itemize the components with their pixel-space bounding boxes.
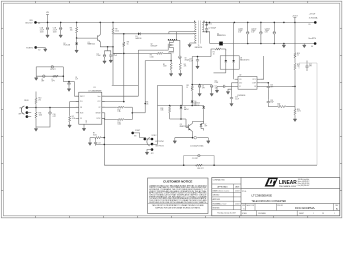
svg-text:LTC3805EMSE: LTC3805EMSE bbox=[89, 91, 103, 93]
svg-text:C4 OPT: C4 OPT bbox=[50, 69, 56, 71]
svg-text:FB: FB bbox=[254, 86, 256, 88]
wire D8 connections bbox=[214, 22, 234, 79]
svg-text:C5: C5 bbox=[41, 79, 43, 81]
transistor Q2 Si7850DP bbox=[151, 40, 174, 50]
capacitor C18 33pF bbox=[267, 90, 274, 107]
resistor R1 1.3M bbox=[163, 53, 172, 72]
sheet border outer frame bbox=[1, 1, 342, 218]
svg-text:ITH: ITH bbox=[80, 101, 82, 103]
wire to U1 INPUT pin bbox=[63, 82, 79, 97]
svg-text:5k: 5k bbox=[127, 44, 129, 46]
resistor R19 10k bbox=[294, 63, 300, 107]
wire bias bus bbox=[113, 53, 156, 55]
drawing number row bbox=[241, 204, 340, 211]
svg-text:U2: U2 bbox=[239, 75, 241, 77]
svg-text:OPT: OPT bbox=[52, 81, 55, 83]
junction dots on VIN rail bbox=[47, 22, 114, 24]
optional sync box C11 R18 bbox=[183, 154, 215, 169]
ground below D2 bbox=[75, 49, 78, 53]
svg-text:2.2uF: 2.2uF bbox=[40, 29, 44, 31]
capacitor C13 OPT bbox=[267, 83, 274, 90]
svg-text:FS: FS bbox=[80, 118, 82, 120]
svg-text:24.9k: 24.9k bbox=[72, 118, 76, 120]
svg-text:E8: E8 bbox=[134, 136, 136, 138]
Y-capacitor C14 2200pF 250VAC bbox=[175, 136, 209, 147]
svg-text:E5: E5 bbox=[309, 24, 311, 26]
ground U2 GND bbox=[226, 83, 234, 94]
svg-text:R16: R16 bbox=[297, 53, 300, 55]
ground below C1A bbox=[46, 34, 49, 38]
ground at SecRTN bbox=[303, 44, 306, 48]
svg-text:1/25/07: 1/25/07 bbox=[235, 203, 240, 205]
wire R6 to Q1 base bbox=[77, 37, 98, 39]
svg-text:D4: D4 bbox=[184, 107, 186, 109]
resistor R3 sense 0.040 ohm bbox=[150, 52, 171, 58]
wire output rail VOUT bbox=[209, 22, 316, 24]
svg-text:E2: E2 bbox=[38, 50, 40, 52]
transformer T1 bias winding bbox=[195, 33, 196, 43]
diode D6 BAS516 bbox=[194, 103, 205, 123]
wire SENSE to current sense bbox=[132, 112, 145, 114]
capacitor C19 2.2uF bbox=[230, 89, 239, 106]
junction dot emitter node bbox=[107, 46, 114, 48]
svg-text:2.2uF: 2.2uF bbox=[97, 55, 101, 57]
resistor R21 51 bbox=[186, 85, 193, 106]
svg-text:C15: C15 bbox=[189, 59, 192, 61]
svg-text:R14: R14 bbox=[118, 122, 121, 124]
svg-text:Q2: Q2 bbox=[151, 44, 153, 46]
capacitor COUT1 150uF bbox=[238, 22, 249, 43]
svg-text:DWG NO: DWG NO bbox=[277, 205, 283, 207]
ground below U1 bbox=[82, 127, 85, 131]
labels EXT SYNC / INT PROG bbox=[151, 141, 165, 155]
resistor R20 10.7k bbox=[294, 107, 301, 118]
transformer T1 core bbox=[198, 21, 200, 44]
svg-text:+VOUT: +VOUT bbox=[309, 14, 317, 16]
wire filter left leg bbox=[35, 67, 37, 76]
svg-text:Si7850DP: Si7850DP bbox=[151, 45, 158, 47]
svg-text:LT4430ES6: LT4430ES6 bbox=[237, 95, 245, 97]
capacitor COUT2 150uF bbox=[251, 22, 262, 43]
inductor L1 OPT bbox=[52, 75, 59, 82]
svg-text:E6: E6 bbox=[311, 46, 313, 48]
capacitor C1A 2.2uF 100V bbox=[40, 22, 49, 33]
wire U2 COMP bbox=[260, 82, 269, 84]
transformer T1 secondary winding bbox=[202, 22, 203, 31]
svg-text:10: 10 bbox=[213, 53, 215, 55]
op-amp U2 LT4430 box bbox=[238, 75, 257, 90]
svg-text:6.3V: 6.3V bbox=[251, 32, 254, 34]
svg-text:C9: C9 bbox=[75, 77, 77, 79]
wire Q3 collector net bbox=[193, 121, 204, 130]
svg-text:OFF: OFF bbox=[18, 114, 21, 116]
svg-text:0.1uF: 0.1uF bbox=[215, 82, 219, 84]
svg-text:OF: OF bbox=[322, 213, 324, 215]
zener D2 PDZ5.6B bbox=[64, 38, 79, 49]
svg-text:R7: R7 bbox=[93, 133, 95, 135]
capacitor C10 OPT bbox=[36, 108, 56, 128]
svg-text:47k: 47k bbox=[184, 66, 187, 68]
svg-text:INPUT: INPUT bbox=[80, 96, 85, 98]
gray board outline bbox=[299, 63, 317, 165]
ground below ITH network bbox=[68, 124, 71, 128]
svg-text:1.3k: 1.3k bbox=[118, 111, 121, 113]
svg-text:3.3k: 3.3k bbox=[146, 103, 149, 105]
wire primary return rail bbox=[104, 164, 317, 166]
border zone tick marks bbox=[1, 1, 342, 218]
svg-text:Phone: (408) 432-1900: Phone: (408) 432-1900 bbox=[298, 183, 310, 185]
svg-text:SHEET: SHEET bbox=[299, 213, 304, 215]
terminal E7 EXT SYNC bbox=[144, 138, 153, 141]
svg-text:1k: 1k bbox=[297, 55, 299, 57]
svg-text:C19: C19 bbox=[235, 97, 238, 99]
diode D1 BAS516 bbox=[113, 32, 169, 40]
svg-text:OPT: OPT bbox=[205, 125, 208, 127]
wire secondary bottom bbox=[202, 31, 209, 44]
svg-text:FB: FB bbox=[80, 107, 82, 109]
wire aux caps branch bbox=[191, 84, 211, 86]
svg-text:OPT: OPT bbox=[202, 87, 205, 89]
svg-text:INT PROG: INT PROG bbox=[156, 145, 165, 147]
terminal E5 +VOUT bbox=[309, 14, 318, 27]
svg-text:SENSE: SENSE bbox=[96, 112, 101, 114]
svg-text:T1: T1 bbox=[198, 45, 200, 47]
svg-text:1/25/07: 1/25/07 bbox=[235, 190, 240, 192]
svg-text:C1B: C1B bbox=[53, 28, 56, 30]
svg-text:R15: R15 bbox=[146, 102, 149, 104]
mosfet drain pin comb bbox=[168, 32, 180, 41]
transformer T1 primary winding bbox=[195, 22, 196, 31]
junction RUN node bbox=[35, 107, 37, 109]
svg-text:33pF: 33pF bbox=[270, 102, 274, 104]
svg-text:CUSTOMER NOTICE: CUSTOMER NOTICE bbox=[163, 180, 192, 184]
svg-text:100k: 100k bbox=[118, 124, 122, 126]
jumper JP2 EXT/INT bbox=[147, 137, 153, 150]
jumper JP1 ON/OFF bbox=[18, 106, 28, 118]
resistor RC ITH compensation bbox=[69, 102, 79, 124]
svg-text:R20: R20 bbox=[297, 109, 300, 111]
svg-text:R19: R19 bbox=[297, 64, 300, 66]
resistor R14 100k bbox=[105, 113, 133, 126]
svg-text:SIZE: SIZE bbox=[242, 205, 245, 207]
mosfet source pins bbox=[169, 48, 174, 54]
transistor Q3 MMBT2907A bbox=[180, 123, 193, 131]
title text LTC3805EMSE bbox=[242, 191, 286, 203]
capacitor C1B 2.2uF 100V bbox=[53, 22, 62, 33]
svg-text:R13: R13 bbox=[161, 108, 164, 110]
ground below C5 bbox=[109, 59, 112, 63]
svg-text:LTC3805EMSE: LTC3805EMSE bbox=[252, 194, 273, 198]
svg-text:1uF: 1uF bbox=[75, 79, 78, 81]
svg-text:R10: R10 bbox=[38, 98, 41, 100]
svg-text:R4 1: R4 1 bbox=[209, 24, 212, 26]
svg-text:R17: R17 bbox=[278, 103, 281, 105]
wire filter bottom branch bbox=[36, 75, 63, 77]
svg-text:27k: 27k bbox=[38, 99, 41, 101]
wire JP2 INT PROG bbox=[152, 143, 158, 145]
ground C14 left bbox=[173, 138, 176, 144]
resistor R12 1.3k bbox=[102, 106, 133, 113]
svg-text:Q1: Q1 bbox=[88, 42, 90, 44]
label PwRTN bbox=[26, 47, 33, 49]
wire aux top bbox=[192, 48, 226, 57]
capacitor C17 OPT bbox=[305, 61, 312, 72]
resistor R10 27k bbox=[35, 92, 42, 108]
svg-text:Q3: Q3 bbox=[180, 124, 182, 126]
svg-text:36V-72V: 36V-72V bbox=[25, 23, 33, 25]
capacitor C8 4700pF bbox=[179, 40, 190, 61]
wire mesh crossing bbox=[112, 84, 139, 86]
svg-text:RUN: RUN bbox=[80, 112, 83, 114]
resistor R11 100k bbox=[35, 108, 42, 128]
svg-text:PwRTN: PwRTN bbox=[26, 47, 33, 49]
U1 GND pin wire bbox=[83, 124, 85, 127]
wire VCC to bias winding bbox=[169, 32, 196, 34]
svg-text:R1: R1 bbox=[163, 64, 165, 66]
wire Q1 emitter down bbox=[100, 42, 113, 47]
svg-text:R18 OPT: R18 OPT bbox=[197, 168, 203, 170]
capacitor C5 0.1uF bbox=[109, 53, 117, 59]
svg-text:C11 OPT: C11 OPT bbox=[192, 158, 198, 160]
resistor R9 221k bbox=[112, 27, 119, 35]
wire Q3 emitter net bbox=[192, 132, 194, 138]
svg-text:OPT: OPT bbox=[41, 81, 44, 83]
svg-text:GND: GND bbox=[239, 82, 242, 84]
wire to VCC caps bbox=[105, 47, 111, 53]
svg-text:1: 1 bbox=[334, 213, 335, 215]
svg-text:L1: L1 bbox=[52, 79, 54, 81]
svg-text:U1: U1 bbox=[93, 87, 95, 89]
capacitor C15 4.7uF bbox=[189, 57, 199, 69]
wire output return rail bbox=[240, 43, 315, 45]
capacitor COUT3 150uF bbox=[265, 22, 276, 45]
svg-text:MMBT440: MMBT440 bbox=[88, 44, 95, 46]
diode D6 BAV19W bbox=[191, 100, 200, 105]
wire Q1 collector to rail bbox=[99, 22, 101, 34]
ground below divider bbox=[293, 117, 296, 121]
capacitor C6 OPT bbox=[198, 85, 205, 97]
net flag +VOUT bbox=[292, 15, 298, 22]
node VIN input rail wire bbox=[36, 21, 196, 23]
svg-text:MBRB2515L: MBRB2515L bbox=[217, 35, 226, 37]
ground below R1 bbox=[169, 72, 172, 76]
svg-text:TELECOM DC/DC CONVERTER: TELECOM DC/DC CONVERTER bbox=[252, 199, 287, 203]
svg-text:PDZ5.6B: PDZ5.6B bbox=[64, 45, 70, 47]
svg-text:0.040: 0.040 bbox=[150, 56, 154, 58]
wire secondary program line bbox=[158, 85, 204, 144]
svg-text:R11: R11 bbox=[39, 113, 42, 115]
terminal E8 FSET bbox=[131, 130, 146, 137]
resistor R13 3.3k bbox=[161, 106, 171, 120]
resistor R2 47k bbox=[179, 59, 186, 73]
wire sec aux vertical bbox=[191, 57, 193, 86]
svg-text:OPT: OPT bbox=[309, 66, 312, 68]
label below U2 bbox=[237, 95, 245, 97]
wire x113 vertical bbox=[112, 22, 114, 85]
diode D8 BAT54CWTG dual bbox=[220, 56, 250, 69]
svg-text:6.3V: 6.3V bbox=[265, 32, 268, 34]
logo Linear Technology bbox=[265, 178, 310, 188]
wire Q3 base net bbox=[170, 118, 189, 127]
capacitor C12 bbox=[94, 138, 101, 146]
label SYNC bbox=[152, 135, 158, 137]
capacitor C9 1uF bbox=[68, 77, 78, 87]
net flag VIN up bbox=[46, 12, 50, 22]
svg-text:10.7k: 10.7k bbox=[297, 111, 301, 113]
label T1 PA0367NL bbox=[195, 45, 203, 49]
svg-text:TECHNOLOGY: TECHNOLOGY bbox=[279, 186, 297, 188]
svg-text:R12: R12 bbox=[118, 109, 121, 111]
wire VCC to U1 bbox=[102, 101, 125, 103]
terminal E6 SecRTN bbox=[308, 38, 316, 48]
svg-text:R3: R3 bbox=[150, 55, 152, 57]
svg-text:100k: 100k bbox=[39, 114, 43, 116]
resistor R16 1k bbox=[294, 52, 300, 63]
wire loop right side bbox=[132, 107, 134, 119]
terminal E1 VIN bbox=[34, 21, 40, 25]
wire U2 OPTO up bbox=[260, 56, 263, 79]
wire divider mid bbox=[292, 85, 295, 87]
wire filter to U1 INPUT bbox=[63, 67, 65, 82]
svg-text:3.3V@5A: 3.3V@5A bbox=[309, 16, 318, 19]
transistor Q1 MMBT440 bbox=[88, 35, 101, 46]
label VIN 36V-72V bbox=[25, 20, 33, 24]
junction dots on VCC line bbox=[123, 33, 138, 35]
wire JP1 to divider bbox=[27, 108, 36, 117]
svg-text:C3: C3 bbox=[97, 53, 99, 55]
svg-text:+VOUT: +VOUT bbox=[292, 15, 298, 17]
svg-text:CHECKED: CHECKED bbox=[213, 195, 220, 197]
wire emitter bus bbox=[113, 47, 122, 54]
svg-text:TITLE:: TITLE: bbox=[242, 191, 247, 193]
svg-text:JP2: JP2 bbox=[151, 153, 154, 155]
ground below C1B bbox=[59, 34, 62, 38]
wire U2 FB to divider bbox=[260, 85, 295, 87]
transformer T1 phasing dots bbox=[194, 21, 205, 22]
svg-text:D1: D1 bbox=[136, 36, 138, 38]
svg-text:SYNC: SYNC bbox=[152, 135, 158, 137]
junction node below R6 bbox=[76, 37, 78, 39]
wire RUN node to U1 bbox=[36, 107, 79, 109]
svg-text:10k: 10k bbox=[70, 30, 73, 32]
ground left of R7 bbox=[88, 138, 91, 146]
svg-text:2.7k: 2.7k bbox=[278, 105, 281, 107]
svg-text:221k: 221k bbox=[115, 31, 119, 33]
svg-text:6.3V: 6.3V bbox=[238, 32, 241, 34]
svg-text:D6: D6 bbox=[194, 103, 196, 105]
svg-text:D6: D6 bbox=[194, 101, 196, 103]
resistor R8 on VCC branch bbox=[123, 34, 129, 102]
svg-text:OC: OC bbox=[239, 86, 241, 88]
svg-text:OPT: OPT bbox=[53, 116, 56, 118]
svg-text:3.3k: 3.3k bbox=[161, 110, 164, 112]
svg-text:4.7uF: 4.7uF bbox=[189, 60, 193, 62]
wire INT PROG line bbox=[96, 144, 153, 146]
ground below R11 bbox=[34, 127, 37, 131]
ground below C9 bbox=[67, 87, 70, 91]
svg-text:C2 1000pF: C2 1000pF bbox=[209, 28, 217, 30]
svg-text:2.2uF: 2.2uF bbox=[235, 98, 239, 100]
ground below C3 bbox=[103, 59, 106, 63]
svg-text:R2: R2 bbox=[184, 64, 186, 66]
svg-text:10k: 10k bbox=[297, 66, 300, 68]
svg-text:C10: C10 bbox=[53, 114, 56, 116]
diode D4 BAT54 bbox=[180, 106, 189, 120]
svg-text:0.1uF: 0.1uF bbox=[113, 55, 117, 57]
svg-text:2.2uF: 2.2uF bbox=[53, 29, 57, 31]
svg-text:DC1045A: DC1045A bbox=[295, 206, 315, 210]
svg-text:D5: D5 bbox=[217, 33, 219, 35]
wire filter top branch bbox=[36, 66, 63, 68]
svg-text:C17: C17 bbox=[309, 64, 312, 66]
ground bias winding bbox=[188, 43, 191, 47]
wire feedback divider bbox=[294, 22, 296, 52]
ground C14 right bbox=[207, 138, 210, 144]
customer notice box bbox=[148, 178, 208, 214]
op-amp U1 LTC3805EMSE box bbox=[79, 87, 102, 124]
sheet row bbox=[242, 211, 335, 216]
svg-text:RUN: RUN bbox=[24, 100, 29, 102]
svg-text:80.6k: 80.6k bbox=[93, 134, 97, 136]
capacitor C3 2.2uF bbox=[97, 53, 106, 60]
resistor R6 10k bbox=[70, 22, 78, 38]
ground secondary return bbox=[282, 44, 285, 48]
capacitor C4 OPT bbox=[50, 66, 56, 72]
svg-text:Fax: (408) 434-0507: Fax: (408) 434-0507 bbox=[298, 185, 310, 187]
ground PwRTN bbox=[44, 47, 47, 51]
diode D7 clamp bbox=[200, 124, 208, 129]
wire U1 gate drive bbox=[102, 50, 165, 96]
wire secondary top bbox=[202, 22, 209, 24]
U2 pins bbox=[235, 79, 261, 88]
capacitor C7 1uF bbox=[210, 85, 217, 97]
wire drain to primary bottom bbox=[169, 32, 196, 34]
capacitor C5 OPT bbox=[41, 75, 45, 83]
snubber R4 C2 across secondary bbox=[205, 22, 216, 32]
sheet border inner frame bbox=[3, 3, 340, 216]
resistor R7 80.6k bbox=[90, 133, 105, 139]
svg-text:RECEIVED: RECEIVED bbox=[213, 208, 220, 210]
U1 pins and pin labels bbox=[76, 95, 105, 123]
label R15 3.3k bbox=[146, 102, 149, 106]
ground JP2 bbox=[145, 150, 152, 155]
wire current sense riser bbox=[144, 60, 172, 113]
title block frame and approvals table bbox=[212, 178, 340, 216]
svg-text:FSET: FSET bbox=[135, 130, 141, 132]
svg-text:EXT SYNC: EXT SYNC bbox=[156, 141, 165, 143]
svg-text:C18: C18 bbox=[270, 100, 273, 102]
wire U1 SYNC down to rail bbox=[102, 118, 105, 165]
ground filter left bbox=[35, 76, 38, 80]
label RUN bbox=[24, 100, 29, 102]
svg-text:APPROVALS: APPROVALS bbox=[217, 185, 228, 188]
svg-text:D8: D8 bbox=[240, 58, 242, 60]
capacitor C16 0.1uF bbox=[215, 80, 235, 92]
resistor R17 2.7k bbox=[268, 103, 295, 107]
svg-text:51: 51 bbox=[186, 87, 188, 89]
svg-text:VIN: VIN bbox=[239, 79, 241, 81]
svg-text:D2: D2 bbox=[64, 43, 66, 45]
wire bias winding to ground bbox=[190, 42, 197, 44]
ground below R2 bbox=[179, 72, 182, 76]
terminal E2 PwRTN bbox=[34, 46, 40, 51]
diode D5 MBRB2515L bbox=[210, 33, 241, 45]
svg-text:SecRTN: SecRTN bbox=[308, 38, 316, 40]
svg-text:E1: E1 bbox=[38, 23, 40, 25]
svg-text:COMP: COMP bbox=[252, 82, 256, 84]
svg-text:1: 1 bbox=[313, 213, 314, 215]
wire PwRTN to ground bbox=[36, 46, 46, 48]
